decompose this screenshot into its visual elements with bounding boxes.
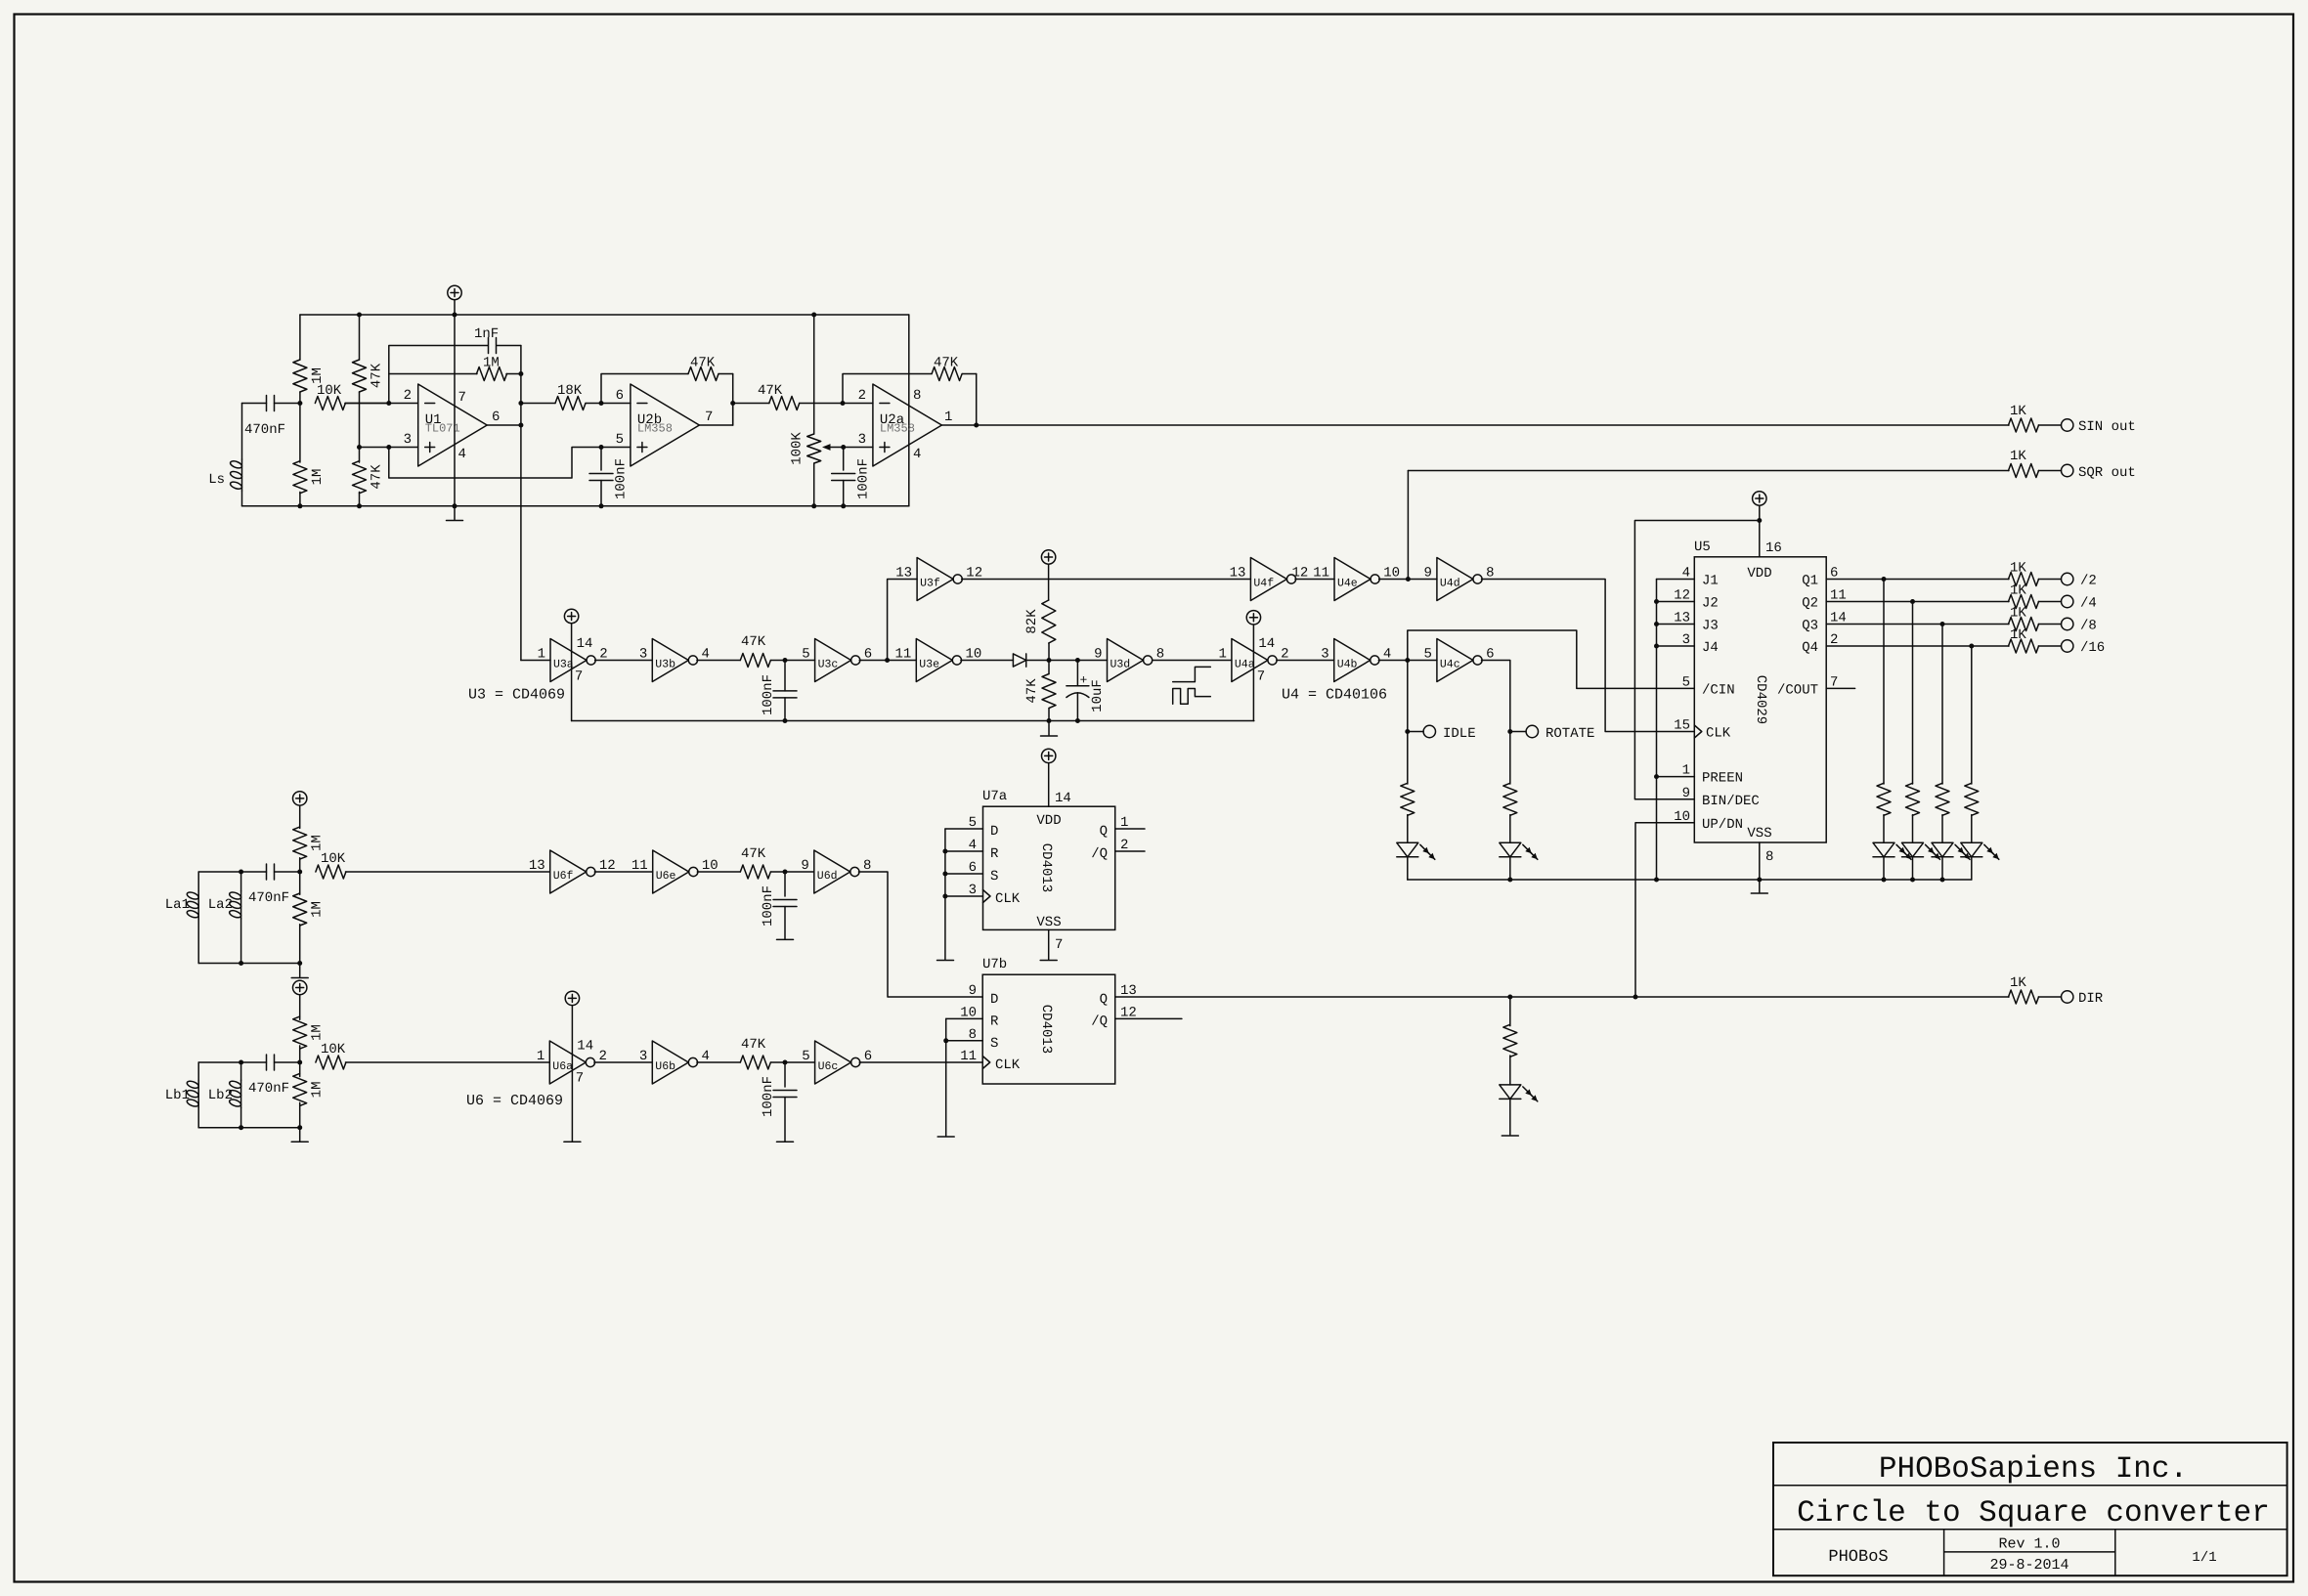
svg-text:5: 5 (802, 647, 809, 663)
terminal DIR (2062, 991, 2073, 1003)
wire U3c out junction (859, 660, 916, 662)
power +V supply symbol (U3 pin 14) (564, 609, 578, 623)
IC U5 CD4029 body (1694, 557, 1826, 842)
svg-text:UP/DN: UP/DN (1702, 817, 1743, 833)
svg-text:PREEN: PREEN (1702, 771, 1743, 787)
svg-text:16: 16 (1765, 540, 1782, 556)
wire U6c out to U7b CLK (859, 1061, 982, 1063)
svg-text:2: 2 (404, 388, 412, 404)
svg-text:1: 1 (538, 647, 545, 663)
svg-text:PHOBoS: PHOBoS (1828, 1548, 1888, 1567)
wire J3 lead (1657, 624, 1695, 625)
svg-text:8: 8 (1765, 849, 1773, 865)
svg-text:47K: 47K (934, 356, 959, 371)
svg-text:1K: 1K (2010, 627, 2026, 643)
inverter U6b (652, 1041, 688, 1084)
resistor 1M (Lb upper bias) (293, 1016, 307, 1049)
terminal /8 (2062, 618, 2073, 629)
ground symbol Lb RC (777, 1141, 794, 1143)
wire J4 lead (1657, 645, 1695, 647)
wire Q2 LED column (1912, 602, 1914, 785)
svg-text:15: 15 (1674, 718, 1690, 734)
inverter U4e (1334, 558, 1371, 601)
capacitor 470nF (Lb) (266, 1055, 268, 1070)
svg-text:2: 2 (858, 388, 866, 404)
resistor Q3 LED (1936, 783, 1949, 815)
svg-text:Q: Q (1100, 824, 1108, 840)
wire U7b R/S bus (945, 1018, 947, 1136)
svg-text:VDD: VDD (1036, 813, 1061, 829)
junction UP/DN riser at DIR (1633, 995, 1638, 1000)
svg-text:47K: 47K (690, 356, 716, 371)
LED Q4 (1961, 842, 1982, 857)
wire U2b feedback riser left (601, 374, 688, 404)
wire U5 VDD stem (1759, 505, 1761, 557)
resistor 47K (U2a feedback) (932, 367, 962, 381)
inverter U6d (814, 850, 850, 893)
terminal SQR out (2062, 464, 2073, 476)
svg-text:VSS: VSS (1036, 915, 1061, 930)
inductor La1 (197, 872, 199, 891)
svg-text:3: 3 (858, 432, 866, 448)
junction wiper to 100nF (841, 445, 846, 450)
junction 100nF bottom rail U2a (841, 503, 846, 508)
junction La bias node (297, 870, 302, 875)
wire U4b-out to /CIN (1408, 630, 1695, 688)
svg-text:10uF: 10uF (1090, 679, 1106, 712)
wire PREEN lead (1657, 776, 1695, 778)
wire U7a input bus (944, 829, 946, 960)
resistor 47K (upper divider) (359, 315, 361, 360)
resistor 1M (lower bias) (299, 404, 301, 463)
wire U2a V+ pin 8 / V- pin 4 stem (908, 315, 910, 506)
LED DIR (1500, 1085, 1521, 1100)
wire U2a feedback riser left (843, 374, 932, 404)
svg-text:29-8-2014: 29-8-2014 (1989, 1557, 2068, 1574)
svg-text:BIN/DEC: BIN/DEC (1702, 794, 1760, 809)
svg-text:5: 5 (616, 432, 624, 448)
svg-text:1K: 1K (2010, 606, 2026, 622)
wire U7a R lead (945, 850, 983, 852)
capacitor 470nF (input coupling) (242, 403, 267, 405)
svg-text:100nF: 100nF (761, 674, 776, 715)
resistor 18K (series to U2b) (521, 403, 555, 405)
wire U1 output riser (520, 346, 522, 426)
junction J3 (1654, 622, 1659, 626)
svg-text:IDLE: IDLE (1443, 726, 1476, 742)
svg-text:100nF: 100nF (856, 458, 872, 499)
inverter U4d (1437, 558, 1473, 601)
IC U7a CD4013 body (983, 806, 1115, 929)
svg-text:U3b: U3b (655, 659, 675, 671)
wire U7b R lead (946, 1017, 983, 1019)
wire U4a out to U4b (1277, 660, 1334, 662)
svg-text:5: 5 (1682, 674, 1690, 690)
svg-text:SIN out: SIN out (2078, 419, 2136, 435)
wire U5 VSS stem (1759, 842, 1761, 880)
capacitor 100nF (Lb RC) (784, 1062, 786, 1087)
wire ROTATE column (1509, 732, 1511, 785)
junction diode cathode / 82K / 47K (1047, 658, 1052, 663)
wire bottom ground rail (242, 505, 909, 507)
wire U6d out to U7b D (858, 872, 982, 997)
wire La bottom (198, 963, 300, 965)
wire U6f out to U6e (594, 871, 652, 873)
svg-text:Q4: Q4 (1802, 640, 1818, 656)
wire U3f input riser (888, 580, 918, 661)
wire J1 lead (1657, 579, 1695, 581)
inverter U4c (1437, 639, 1473, 682)
wire U7a /Q stub (1115, 850, 1145, 852)
svg-text:ROTATE: ROTATE (1546, 726, 1594, 742)
svg-text:U4f: U4f (1253, 578, 1274, 590)
svg-text:10: 10 (1674, 809, 1690, 825)
inverter U3d (1108, 639, 1144, 682)
inverter U4f (1250, 558, 1286, 601)
resistor 47K (lower divider) (359, 448, 361, 463)
svg-text:+: + (1080, 673, 1088, 688)
resistor 82K (1048, 564, 1050, 600)
junction 1M feedback right (518, 371, 523, 376)
wire U1 output (487, 424, 521, 426)
svg-text:12: 12 (1674, 588, 1690, 604)
svg-text:47K: 47K (741, 1037, 766, 1053)
IC U7b CD4013 body (982, 974, 1114, 1084)
junction SQR tap (1406, 577, 1411, 582)
wire U6a pin14/pin7 stem (571, 1006, 573, 1142)
power +V supply symbol (82K) (1041, 550, 1055, 564)
wire U3a pin14/pin7 stem (571, 624, 573, 721)
resistor 47K (series to U2a) (733, 403, 769, 405)
resistor 47K (to ground) (1048, 661, 1050, 674)
svg-text:3: 3 (404, 432, 412, 448)
wire U6e out to 47K (697, 871, 740, 873)
resistor DIR LED (1509, 997, 1511, 1026)
svg-text:1: 1 (537, 1049, 544, 1064)
junction Lb RC node (783, 1060, 788, 1065)
svg-text:7: 7 (705, 410, 713, 425)
svg-text:100nF: 100nF (761, 885, 776, 927)
capacitor 1nF (feedback) (488, 338, 490, 354)
junction lower bias to ground rail (297, 503, 302, 508)
svg-text:5: 5 (969, 815, 977, 831)
wire Lb bottom (198, 1127, 300, 1129)
svg-text:U6c: U6c (818, 1060, 839, 1073)
junction DIR LED tap (1507, 995, 1512, 1000)
junction La2 top (239, 870, 243, 875)
wire U3e out to diode (961, 660, 1014, 662)
junction U1 pin4 at ground rail (453, 503, 457, 508)
svg-text:470nF: 470nF (248, 890, 289, 906)
wire Q2 output row (1826, 601, 2009, 603)
wire SQR riser from U4d input node (1407, 471, 1409, 580)
junction Lb2 top (239, 1060, 243, 1065)
svg-text:1: 1 (1120, 815, 1128, 831)
svg-text:U4c: U4c (1440, 659, 1460, 671)
junction Q3 LED at rail (1940, 878, 1945, 883)
svg-text:U3d: U3d (1110, 659, 1131, 671)
resistor 47K (U3 RC) (740, 654, 770, 668)
svg-text:5: 5 (1423, 647, 1431, 663)
svg-text:PHOBoSapiens Inc.: PHOBoSapiens Inc. (1879, 1452, 2188, 1487)
svg-text:12: 12 (1120, 1005, 1137, 1020)
inverter U6e (653, 850, 689, 893)
svg-text:U7a: U7a (982, 789, 1007, 804)
resistor Q1 LED (1877, 783, 1891, 815)
svg-text:/8: /8 (2080, 619, 2097, 634)
junction 100nF at ground wire (783, 718, 788, 723)
junction 47K divider top rail (357, 313, 362, 318)
wire U6a out to U6b (594, 1061, 652, 1063)
wire BIN/DEC to VDD (1634, 521, 1759, 799)
terminal /2 (2062, 573, 2073, 584)
wire Q1 LED column (1883, 580, 1885, 785)
svg-text:Q3: Q3 (1802, 619, 1818, 634)
wire U4c out to ROTATE column (1482, 661, 1510, 732)
wire U3d out to U4a (1153, 660, 1232, 662)
ground symbol DIR LED (1502, 1135, 1518, 1137)
svg-text:1M: 1M (483, 356, 500, 371)
junction Lb2 bottom (239, 1125, 243, 1130)
junction La bias bottom (297, 961, 302, 966)
svg-text:1M: 1M (310, 835, 326, 851)
wire U1 pin 3 input (360, 447, 418, 449)
junction Q2 LED at rail (1910, 878, 1915, 883)
resistor 1M (U1 feedback) (477, 367, 507, 381)
svg-text:100nF: 100nF (614, 458, 630, 499)
svg-text:CLK: CLK (995, 891, 1021, 907)
junction IDLE node (1405, 729, 1410, 734)
junction J2 (1654, 599, 1659, 604)
svg-text:/2: /2 (2080, 574, 2097, 589)
svg-text:1K: 1K (2010, 561, 2026, 577)
svg-text:470nF: 470nF (244, 422, 285, 438)
wire U3b out to 47K (697, 660, 740, 662)
wire U1 pin 2 input (345, 403, 418, 405)
svg-text:100K: 100K (790, 432, 806, 465)
junction ROTATE node (1507, 729, 1512, 734)
svg-text:U3f: U3f (920, 578, 940, 590)
svg-text:R: R (990, 1014, 999, 1029)
svg-text:/CIN: /CIN (1702, 682, 1735, 698)
junction +V to top rail (453, 313, 457, 318)
terminal /16 (2062, 640, 2073, 652)
ground symbol U7a VSS (1040, 960, 1057, 962)
svg-text:U6d: U6d (817, 870, 838, 883)
svg-text:LM358: LM358 (880, 422, 915, 436)
svg-text:6: 6 (492, 410, 500, 425)
junction PREEN (1654, 774, 1659, 779)
wire J bus (1656, 580, 1658, 881)
resistor Q2 LED (1906, 783, 1920, 815)
svg-text:47K: 47K (758, 383, 783, 399)
wire Q4 LED column (1971, 646, 1973, 784)
svg-text:U6b: U6b (655, 1060, 675, 1073)
svg-text:Lb2: Lb2 (208, 1088, 233, 1103)
inverter U4a (1232, 639, 1268, 682)
svg-text:14: 14 (577, 636, 593, 652)
wire U7a D lead (945, 828, 983, 830)
junction 100nF top (599, 445, 604, 450)
svg-text:Rev 1.0: Rev 1.0 (1998, 1536, 2060, 1553)
wire U7b /Q stub (1115, 1017, 1182, 1019)
svg-text:U6e: U6e (656, 870, 676, 883)
svg-text:47K: 47K (370, 363, 385, 388)
inverter U6c (815, 1041, 851, 1084)
junction J4 (1654, 644, 1659, 649)
inductor Lb2 (240, 1062, 242, 1080)
svg-text:4: 4 (913, 447, 921, 462)
wire U2b feedback right riser (732, 374, 734, 426)
svg-text:/COUT: /COUT (1777, 682, 1818, 698)
svg-text:7: 7 (576, 1071, 584, 1087)
svg-text:/4: /4 (2080, 596, 2097, 612)
resistor 1K (/2 out) (2009, 573, 2039, 586)
wire Q3 output row (1826, 624, 2009, 625)
LED Q1 (1873, 842, 1894, 857)
wire SIN output line (941, 424, 2009, 426)
ground symbol Lb (299, 1128, 301, 1142)
terminal ROTATE (1510, 731, 1526, 733)
wire mid ground bus (572, 720, 1254, 722)
svg-text:100nF: 100nF (761, 1076, 776, 1117)
junction U2b pin6 node (599, 401, 604, 406)
LED Q3 (1932, 842, 1953, 857)
potentiometer 100K (813, 315, 815, 434)
svg-text:9: 9 (1094, 647, 1102, 663)
power +V supply symbol (oscillator) (448, 285, 461, 299)
resistor IDLE LED (1401, 783, 1415, 815)
power +V supply symbol (U7a) (1042, 749, 1056, 762)
junction BIN/DEC tie to VDD (1757, 518, 1762, 523)
ground symbol U7a bus (937, 960, 954, 962)
svg-text:U6 = CD4069: U6 = CD4069 (466, 1093, 563, 1109)
svg-text:47K: 47K (741, 634, 766, 650)
wire top supply rail (300, 314, 909, 316)
svg-text:1: 1 (1218, 647, 1226, 663)
wire U2a feedback right riser (976, 374, 978, 426)
resistor 1K (SQR out) (2009, 464, 2039, 478)
svg-text:11: 11 (631, 858, 648, 874)
wire /COUT stub (1826, 687, 1854, 689)
resistor 1M (La upper bias) (293, 827, 307, 859)
resistor 1M (upper bias) (299, 315, 301, 360)
wire U7b S lead (946, 1040, 983, 1042)
junction 10uF at ground wire (1075, 718, 1080, 723)
capacitor 10uF polarized (1076, 661, 1078, 686)
wire U1 power stem pin7/pin4 (454, 315, 456, 506)
svg-text:Lb1: Lb1 (165, 1088, 190, 1103)
wire SQR output line (1408, 470, 2009, 472)
resistor 1K (/8 out) (2009, 618, 2039, 631)
svg-text:Ls: Ls (208, 472, 225, 488)
junction U7a CLK (942, 894, 947, 899)
svg-text:Q1: Q1 (1802, 574, 1818, 589)
svg-text:13: 13 (1230, 566, 1246, 582)
svg-text:1M: 1M (310, 1024, 326, 1041)
svg-text:U4e: U4e (1337, 578, 1358, 590)
resistor ROTATE LED (1503, 783, 1517, 815)
inverter U3f (917, 558, 953, 601)
svg-text:U3e: U3e (919, 659, 939, 671)
capacitor 100nF (U2a pin3 filter) (843, 448, 845, 471)
wire U7a VSS stem (1048, 929, 1050, 959)
capacitor 470nF (La) (266, 864, 268, 880)
svg-text:7: 7 (458, 390, 466, 406)
inverter U6f (550, 850, 587, 893)
resistor 1M (La lower bias) (299, 872, 301, 894)
inductor Ls (241, 404, 243, 460)
power +V supply symbol (U6 pin 14) (565, 991, 579, 1005)
junction Lb bias bottom (297, 1125, 302, 1130)
svg-text:10K: 10K (317, 383, 342, 399)
ground symbol U6a pin7 (564, 1141, 581, 1143)
inverter U4b (1334, 639, 1371, 682)
junction 47K at ground wire (1047, 718, 1052, 723)
svg-text:13: 13 (895, 566, 912, 582)
wire U7a CLK lead (945, 895, 983, 897)
LED ROTATE (1500, 842, 1521, 857)
junction lower 47K to ground rail (357, 503, 362, 508)
junction pot bottom at rail (811, 503, 816, 508)
svg-text:1K: 1K (2010, 449, 2026, 464)
svg-text:U6a: U6a (552, 1060, 573, 1073)
LED IDLE (1397, 842, 1418, 857)
op-amp U1 TL071 (418, 384, 488, 466)
resistor 1K (/4 out) (2009, 595, 2039, 609)
svg-text:11: 11 (894, 647, 911, 663)
resistor 47K (Lb RC) (740, 1056, 770, 1069)
wire Lb row (198, 1061, 266, 1063)
wire pin3 under-loop to U2b pin5 (389, 448, 601, 479)
power +V supply symbol (Lb bias) (293, 980, 307, 994)
svg-text:CD4029: CD4029 (1753, 675, 1768, 724)
svg-text:1M: 1M (310, 901, 326, 918)
svg-text:18K: 18K (557, 383, 583, 399)
wire U4b out to U4c (1378, 660, 1437, 662)
wire J2 lead (1657, 601, 1695, 603)
resistor Q4 LED (1965, 783, 1979, 815)
junction Q4 LED tap (1969, 644, 1974, 649)
svg-text:DIR: DIR (2078, 991, 2104, 1007)
wire U3f out to U4f (962, 579, 1251, 581)
junction Q3 LED tap (1940, 622, 1945, 626)
inductor La2 (240, 872, 242, 891)
resistor 1K (/16 out) (2009, 639, 2039, 653)
svg-text:1M: 1M (310, 469, 326, 486)
svg-text:3: 3 (1321, 647, 1328, 663)
junction J bus at ground rail (1654, 878, 1659, 883)
inverter U3c (815, 639, 851, 682)
square wave symbol (1173, 667, 1211, 681)
wire U7a Q stub (1115, 828, 1145, 830)
junction U4b out tap (IDLE //CIN) (1405, 658, 1410, 663)
junction pot top at rail (811, 313, 816, 318)
junction U2a pin2 node (841, 401, 846, 406)
junction Lb bias node (297, 1060, 302, 1065)
svg-text:8: 8 (913, 388, 921, 404)
svg-text:9: 9 (969, 983, 977, 999)
svg-text:/Q: /Q (1091, 846, 1108, 862)
junction Q1 LED at rail (1882, 878, 1887, 883)
title block frame (1773, 1443, 2287, 1575)
svg-text:5: 5 (802, 1049, 809, 1064)
svg-text:10K: 10K (321, 1042, 346, 1057)
capacitor 100nF (U3 RC) (784, 661, 786, 691)
wire U7b Q to DIR line (1115, 996, 2009, 998)
capacitor 100nF (U2b pin5 filter) (600, 448, 602, 471)
junction U2a output node (974, 423, 979, 428)
